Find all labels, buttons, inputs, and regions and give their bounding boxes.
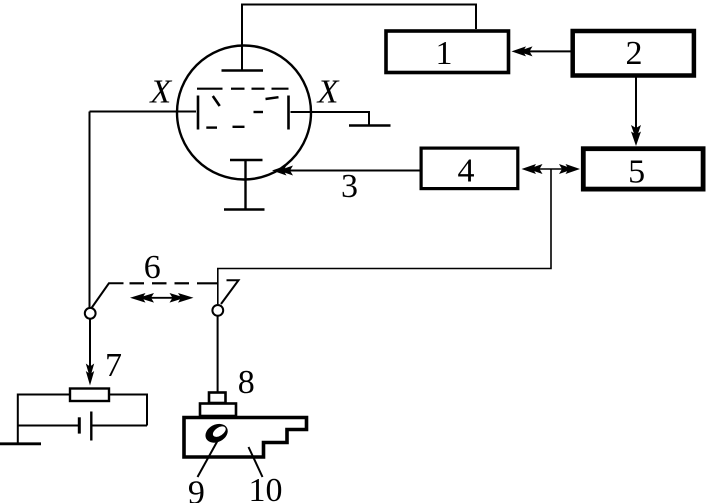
wire top: tube top to box 1: [242, 5, 476, 71]
svg-text:10: 10: [249, 472, 283, 503]
wire right X plate with step terminal: [291, 112, 370, 126]
double arrow 6: [138, 297, 186, 299]
svg-text:5: 5: [628, 154, 645, 191]
box 5: [583, 149, 703, 189]
left switch arm: [92, 283, 124, 308]
leader line 10: [249, 447, 263, 477]
wire 3: box 4 to tube, arrow left: [280, 170, 420, 172]
battery long plate: [90, 412, 92, 441]
electrode top bar (cathode): [222, 69, 264, 71]
dash lower-left inside tube: [206, 126, 217, 128]
svg-text:6: 6: [144, 249, 161, 286]
wire left vertical from X plate down to switch: [89, 112, 91, 309]
arrow box2 to box1: [520, 50, 571, 52]
svg-text:1: 1: [436, 35, 453, 72]
dash diagonal inside tube: [213, 96, 220, 106]
wire box2 down to box5 with arrow: [635, 77, 637, 131]
svg-text:9: 9: [188, 475, 205, 503]
svg-text:X: X: [316, 74, 340, 111]
box 1: [386, 31, 509, 73]
left switch contact circle: [85, 308, 96, 319]
dash upper-right inside tube: [266, 97, 279, 99]
electrode bottom (target I shape): [230, 159, 263, 161]
ground bar: [0, 442, 41, 445]
svg-text:2: 2: [626, 35, 643, 72]
dashed line inside tube: [197, 88, 223, 90]
battery row right wire: [93, 425, 148, 427]
tube envelope (circle): [177, 46, 311, 180]
svg-text:7: 7: [105, 347, 122, 384]
leader line 9: [198, 440, 219, 477]
double arrow between box4 and box5: [529, 168, 572, 170]
pedestal wide block: [200, 404, 236, 417]
arrowhead 3: [272, 166, 293, 176]
right switch arm: [221, 280, 239, 304]
potentiometer box: [70, 389, 109, 402]
svg-text:8: 8: [238, 364, 255, 401]
deflection plate right: [287, 96, 290, 130]
battery row left wire: [18, 425, 78, 427]
wire pot right down: [110, 395, 148, 426]
right switch contact circle: [212, 305, 223, 316]
wire from double arrow down to right switch: [218, 169, 551, 304]
spot 9 (tilted ellipse): [202, 420, 231, 446]
pedestal small block: [209, 393, 226, 404]
box 2: [573, 31, 694, 76]
wire right switch down to pedestal 8: [217, 316, 219, 392]
deflection plate left: [197, 96, 200, 130]
box 4: [421, 148, 518, 189]
dashed link 6: [130, 282, 145, 284]
wire pot left to ground: [18, 395, 70, 444]
dash lower-middle inside tube: [233, 126, 245, 128]
svg-text:3: 3: [341, 168, 358, 205]
terminal bar right: [349, 124, 391, 126]
wire left switch down + arrow 7: [89, 319, 91, 368]
svg-text:X: X: [148, 74, 172, 111]
battery short plate: [78, 417, 81, 433]
wire left X plate: [90, 111, 197, 113]
dash middle inside tube: [254, 111, 264, 113]
svg-text:4: 4: [458, 153, 475, 190]
machine body 10 (stepped block): [184, 418, 307, 458]
